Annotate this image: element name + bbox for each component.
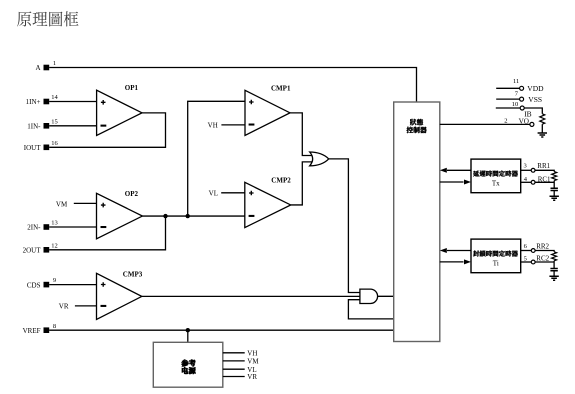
comparator CMP2 — [245, 177, 291, 228]
wire 2IN- to OP2 — [49, 226, 96, 228]
svg-text:CMP3: CMP3 — [123, 270, 143, 278]
wire IB to resistor — [524, 108, 542, 114]
resistor RR1-RC1 — [552, 172, 557, 181]
wire RC2 junction — [535, 261, 554, 268]
svg-text:Tx: Tx — [492, 180, 500, 188]
wire CMP2 output to OR gate — [291, 162, 313, 205]
comparator CMP1 — [245, 84, 291, 135]
svg-text:VR: VR — [59, 303, 69, 311]
svg-text:OP1: OP1 — [125, 84, 139, 92]
svg-text:13: 13 — [51, 220, 58, 227]
pin A (1) — [35, 60, 56, 72]
pin 2IN- (13) — [27, 220, 57, 232]
svg-text:15: 15 — [51, 118, 58, 125]
pin VSS (7) — [496, 91, 542, 105]
block reference supply (参考电源) — [153, 342, 223, 387]
pin RR1 (3) — [521, 162, 551, 172]
pin RC1 (4) — [521, 175, 551, 184]
wire CMP1 output to OR gate — [290, 113, 313, 156]
pin RR2 (6) — [521, 243, 550, 253]
resistor RR2-RC2 — [552, 252, 557, 261]
svg-text:VREF: VREF — [23, 327, 41, 335]
arrow state controller to Tx — [440, 180, 471, 185]
svg-text:CMP1: CMP1 — [271, 84, 291, 92]
svg-text:12: 12 — [51, 242, 58, 249]
wire state controller feedback to AND gate — [348, 300, 393, 319]
svg-text:VM: VM — [56, 200, 68, 208]
svg-text:8: 8 — [53, 323, 56, 330]
ground at IB — [538, 133, 547, 137]
block state controller (狀態控制器) — [394, 102, 440, 342]
pin RC2 (5) — [521, 255, 550, 264]
svg-text:6: 6 — [524, 243, 528, 250]
svg-text:14: 14 — [51, 94, 58, 101]
wire OR gate to AND gate — [329, 159, 360, 293]
capacitor at RC2 — [550, 269, 557, 271]
pin VREF (8) — [23, 323, 57, 335]
wire capacitor to ground 2 — [553, 271, 555, 276]
wire RR2 to resistor — [535, 251, 554, 252]
node VR output — [223, 373, 258, 381]
block lockout timer Ti (封鎖時間定時器) — [471, 239, 521, 273]
svg-text:VSS: VSS — [528, 95, 542, 104]
node VM — [56, 200, 97, 208]
wire RR1 to resistor — [535, 170, 554, 171]
pin IOUT (16) — [24, 140, 59, 152]
svg-text:VH: VH — [208, 122, 218, 130]
capacitor at RC1 — [551, 188, 558, 190]
svg-text:IOUT: IOUT — [24, 144, 41, 152]
svg-text:CMP2: CMP2 — [271, 177, 291, 185]
node VH — [208, 122, 245, 130]
node VM output — [223, 358, 260, 366]
junction OP2 output / CMP1 branch — [186, 214, 190, 218]
pin CDS (9) — [27, 277, 56, 289]
block delay timer Tx (延遲時間定時器) — [471, 159, 521, 193]
pin IB (10) — [496, 101, 532, 118]
svg-text:5: 5 — [524, 255, 527, 262]
arrow Ti to state controller — [440, 248, 471, 253]
svg-text:7: 7 — [515, 91, 519, 98]
svg-text:Ti: Ti — [493, 260, 499, 268]
resistor at IB — [540, 114, 545, 124]
svg-text:VH: VH — [247, 349, 257, 357]
node VH output — [223, 349, 258, 357]
svg-text:OP2: OP2 — [125, 190, 139, 198]
pin VO (2) — [504, 117, 534, 126]
pin 1IN+ (14) — [26, 94, 59, 106]
wire VREF to reference supply — [187, 330, 189, 342]
ground at RC1 — [550, 196, 559, 200]
wire CDS to CMP3 — [49, 284, 96, 286]
junction OP2 output / 2OUT — [163, 214, 167, 218]
svg-text:RR2: RR2 — [536, 243, 549, 251]
svg-text:VO: VO — [519, 117, 529, 125]
wire A to state controller — [49, 68, 416, 103]
wire to CMP1 + input — [188, 101, 245, 216]
node VL — [209, 190, 245, 198]
wire AND gate to state controller — [378, 295, 394, 297]
svg-text:RR1: RR1 — [537, 162, 550, 170]
svg-text:VR: VR — [247, 373, 257, 381]
wire RC1 junction — [535, 181, 554, 188]
pin VDD (11) — [496, 78, 544, 93]
pin 2OUT (12) — [23, 242, 58, 254]
svg-text:2: 2 — [504, 118, 507, 125]
svg-text:1IN+: 1IN+ — [26, 98, 41, 106]
svg-text:10: 10 — [512, 101, 519, 108]
op-amp OP2 — [97, 190, 143, 239]
svg-text:3: 3 — [524, 163, 527, 170]
svg-text:RC2: RC2 — [536, 255, 549, 263]
svg-text:CDS: CDS — [27, 281, 41, 289]
wire capacitor to ground — [553, 191, 555, 196]
wire VREF to state controller — [49, 329, 394, 331]
ground at RC2 — [549, 276, 558, 280]
svg-text:11: 11 — [513, 78, 519, 85]
title 原理圖框 — [17, 11, 78, 26]
svg-text:2IN-: 2IN- — [27, 224, 41, 232]
node VR — [59, 303, 97, 311]
node VL output — [223, 366, 257, 374]
svg-text:9: 9 — [53, 277, 56, 284]
svg-text:A: A — [35, 64, 40, 72]
wire CMP3 output to AND gate — [142, 295, 360, 297]
wire 1IN- to OP1 — [49, 125, 96, 127]
comparator CMP3 — [97, 270, 143, 319]
svg-text:16: 16 — [51, 140, 58, 147]
wire VO from state controller — [440, 123, 530, 125]
AND gate — [360, 289, 378, 303]
svg-text:1IN-: 1IN- — [27, 123, 41, 131]
wire resistor to ground — [541, 124, 543, 133]
pin 1IN- (15) — [27, 118, 57, 130]
svg-text:1: 1 — [53, 60, 56, 67]
wire 2OUT branch — [49, 216, 165, 250]
svg-text:VL: VL — [209, 190, 218, 198]
junction VREF / reference supply — [186, 328, 190, 332]
OR gate — [310, 152, 329, 166]
arrow state controller to Ti — [440, 259, 471, 264]
svg-text:VM: VM — [247, 358, 259, 366]
wire 1IN+ to OP1 — [49, 101, 96, 103]
op-amp OP1 — [97, 84, 142, 135]
wire OP2 output to CMP2 — [142, 215, 244, 217]
arrow Tx to state controller — [440, 168, 471, 173]
wire OP1 output feedback to IOUT — [49, 113, 165, 147]
svg-text:2OUT: 2OUT — [23, 247, 42, 255]
svg-text:VDD: VDD — [527, 84, 544, 93]
